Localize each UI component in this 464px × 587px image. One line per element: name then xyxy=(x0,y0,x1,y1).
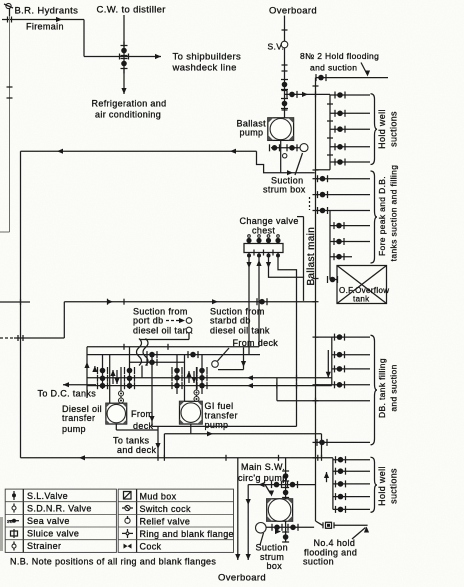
svg-text:C.W. to distiller: C.W. to distiller xyxy=(97,5,166,16)
svg-text:transfer: transfer xyxy=(205,411,238,421)
svg-text:Strainer: Strainer xyxy=(27,541,61,551)
svg-text:To tanks: To tanks xyxy=(113,436,149,446)
svg-text:Main S.W.: Main S.W. xyxy=(241,462,285,472)
svg-text:Cock: Cock xyxy=(140,542,162,552)
svg-text:suction: suction xyxy=(303,557,334,567)
svg-text:8№ 2 Hold flooding: 8№ 2 Hold flooding xyxy=(300,51,379,61)
svg-text:DB. tank filling: DB. tank filling xyxy=(377,358,387,418)
svg-text:S.V.: S.V. xyxy=(268,42,285,52)
svg-text:air conditioning: air conditioning xyxy=(95,110,161,120)
svg-text:S.D.N.R. Valve: S.D.N.R. Valve xyxy=(27,504,92,514)
svg-text:Ballast main: Ballast main xyxy=(306,227,317,286)
svg-text:pump: pump xyxy=(62,424,86,434)
svg-text:N.B. Note positions of all rin: N.B. Note positions of all ring and blan… xyxy=(10,557,216,567)
svg-text:circ'g pump: circ'g pump xyxy=(238,473,288,483)
svg-text:From: From xyxy=(131,409,153,419)
svg-text:Relief valve: Relief valve xyxy=(140,517,191,527)
svg-text:pump: pump xyxy=(240,128,264,138)
svg-text:No.4 hold: No.4 hold xyxy=(314,538,356,548)
svg-text:pump: pump xyxy=(205,420,229,430)
svg-text:Firemain: Firemain xyxy=(26,22,64,32)
svg-text:diesel oil tank: diesel oil tank xyxy=(133,326,193,336)
svg-text:tank: tank xyxy=(353,295,370,304)
svg-text:suctions: suctions xyxy=(389,468,399,504)
svg-text:Overboard: Overboard xyxy=(269,6,317,17)
svg-text:suctions: suctions xyxy=(389,111,399,147)
svg-text:B.R. Hydrants: B.R. Hydrants xyxy=(15,6,79,17)
svg-text:Switch cock: Switch cock xyxy=(140,504,192,514)
svg-text:box: box xyxy=(267,561,283,571)
svg-text:Hold well: Hold well xyxy=(377,109,387,149)
svg-text:Fore peak and D.B.: Fore peak and D.B. xyxy=(377,176,387,256)
svg-text:se: se xyxy=(7,519,13,525)
svg-text:port db: port db xyxy=(133,316,163,326)
svg-text:starbd db: starbd db xyxy=(210,316,251,326)
svg-text:chest: chest xyxy=(252,226,275,236)
svg-text:Sea valve: Sea valve xyxy=(27,516,70,526)
svg-text:Sluice valve: Sluice valve xyxy=(27,529,79,539)
svg-text:Suction: Suction xyxy=(256,543,288,553)
svg-text:Overboard: Overboard xyxy=(218,573,266,584)
svg-text:diesel oil tank: diesel oil tank xyxy=(210,326,270,336)
svg-text:washdeck line: washdeck line xyxy=(172,63,237,74)
svg-text:transfer: transfer xyxy=(62,413,95,423)
svg-text:Refrigeration and: Refrigeration and xyxy=(92,99,167,109)
svg-text:S.L.Valve: S.L.Valve xyxy=(27,491,68,501)
svg-text:To shipbuilders: To shipbuilders xyxy=(173,52,242,63)
svg-text:strum box: strum box xyxy=(263,185,306,195)
svg-text:and suction: and suction xyxy=(389,364,399,411)
svg-text:Mud box: Mud box xyxy=(140,492,177,502)
svg-text:Ring and blank flange: Ring and blank flange xyxy=(140,529,234,539)
svg-text:tanks suction and filling: tanks suction and filling xyxy=(389,165,399,262)
svg-text:Change valve: Change valve xyxy=(240,216,299,226)
svg-text:and deck: and deck xyxy=(117,445,156,455)
svg-text:and suction: and suction xyxy=(310,63,357,73)
svg-text:GI fuel: GI fuel xyxy=(205,401,234,411)
svg-text:Hold well: Hold well xyxy=(377,466,387,506)
